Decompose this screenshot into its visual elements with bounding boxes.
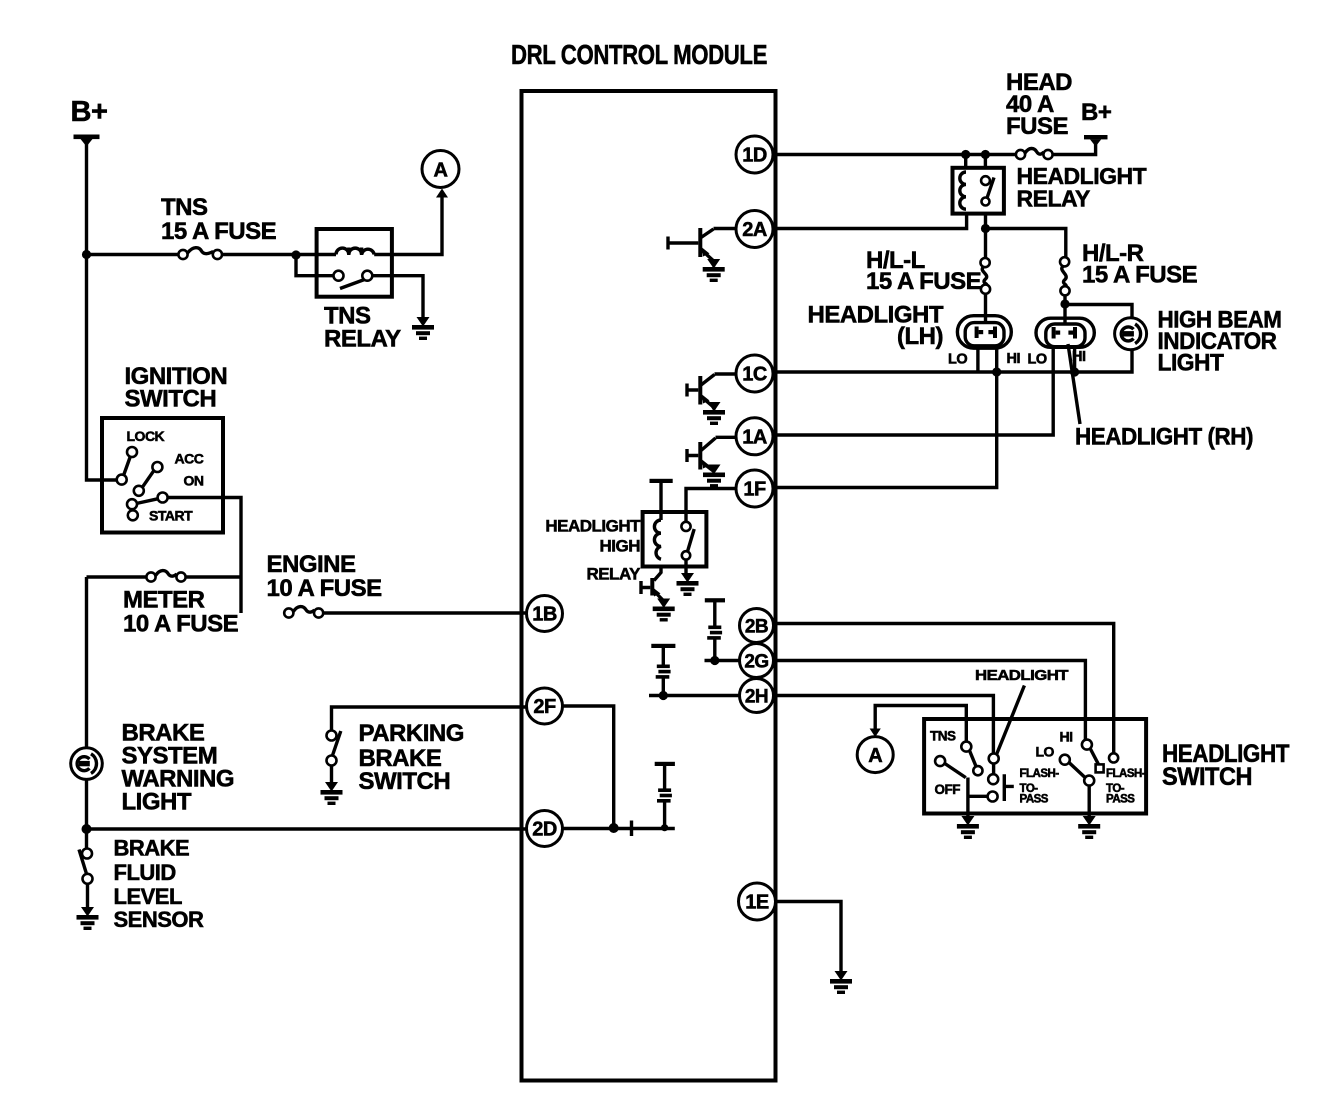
wire: 2A to relay K1 coil	[773, 214, 967, 229]
wire: ENGINE fuse to connector 1B	[323, 611, 527, 614]
wire: ignition switch output to fuses	[168, 498, 241, 614]
svg-text:LO: LO	[948, 352, 967, 368]
wire: branch down into TNS relay contact row	[296, 255, 334, 276]
junction node: relay coil tap on 1D wire	[961, 150, 970, 159]
terminal bar: zener D2 top	[651, 644, 675, 665]
ground: brake fluid level sensor	[77, 907, 99, 930]
svg-text:2G: 2G	[744, 652, 768, 673]
wire: H/L-R fuse to headlight RH and indicator	[1065, 295, 1132, 325]
ground: parking brake switch	[321, 782, 343, 805]
wire: 1C to headlight LH LO and high beam bus	[773, 350, 1132, 372]
label: BRAKE SYSTEM WARNING LIGHT	[122, 720, 235, 816]
relay K2 headlight high relay box	[643, 512, 707, 567]
svg-text:A: A	[868, 745, 882, 767]
svg-text:RELAY: RELAY	[586, 565, 641, 584]
ground: relay K2 contact	[677, 573, 699, 596]
terminal bar: zener D3 top	[655, 762, 675, 789]
wire: 1A to headlight RH LO	[773, 347, 1053, 435]
lamp: brake system warning light	[71, 748, 103, 780]
connector 2F	[527, 688, 563, 724]
relay K1 coil	[960, 172, 966, 209]
label: LO (LH)	[948, 352, 967, 368]
svg-text:2D: 2D	[532, 819, 557, 841]
connector 2G	[740, 644, 774, 678]
ground: headlight switch right	[1078, 816, 1100, 839]
wire: headlight RH HI pin	[1073, 347, 1076, 372]
svg-text:LO: LO	[1036, 744, 1055, 760]
label: HEADLIGHT (switch pointer)	[975, 667, 1068, 684]
junction node: TNS relay branch	[291, 250, 300, 259]
svg-text:10 A FUSE: 10 A FUSE	[267, 575, 383, 602]
wire: relay K1 contact top lead	[984, 155, 987, 169]
label: BRAKE FLUID LEVEL SENSOR	[114, 836, 205, 933]
wire: relay K2 coil to Q4 collector	[654, 567, 661, 581]
connector 1E	[739, 883, 776, 920]
connector A (top) with arrow	[422, 151, 459, 198]
wire: 2G internal	[705, 659, 741, 662]
svg-text:2H: 2H	[745, 687, 768, 708]
ignition switch contacts and blades	[117, 428, 204, 524]
headlight switch SW2 box	[924, 719, 1146, 814]
label: LO (switch position)	[1036, 744, 1055, 760]
svg-text:B+: B+	[1081, 99, 1112, 126]
transistor Q4 (relay driver)	[641, 578, 664, 605]
fuse: ENGINE 10 A FUSE	[284, 607, 323, 618]
connector 1B	[527, 596, 563, 632]
wire: 2D internal	[563, 827, 675, 830]
svg-text:15 A FUSE: 15 A FUSE	[161, 218, 277, 245]
wire: 1F internal to headlight high relay contact	[686, 489, 736, 523]
connector 1C	[736, 355, 773, 392]
svg-text:RELAY: RELAY	[324, 326, 401, 353]
label: H/L-R 15 A FUSE	[1082, 240, 1198, 289]
ground: Q4 emitter	[653, 599, 675, 622]
svg-text:TNS: TNS	[161, 194, 208, 221]
svg-text:15 A FUSE: 15 A FUSE	[866, 268, 982, 295]
lamp: headlight RH	[1036, 318, 1094, 347]
wire: 2D line to module	[87, 827, 528, 830]
ignition switch SW1 box	[102, 418, 223, 533]
label: HEADLIGHT HIGH RELAY	[545, 517, 641, 584]
fuse: TNS 15 A FUSE	[178, 248, 222, 259]
transistor Q1 (2A output)	[668, 228, 736, 267]
wire: H/L-L fuse to headlight LH	[984, 294, 987, 324]
wire: relay K1 contact down to H/L-L fuse	[984, 214, 987, 259]
junction node: 2D branch	[82, 824, 92, 834]
wire: branch to H/L-R fuse	[986, 229, 1066, 258]
svg-text:ON: ON	[184, 473, 204, 489]
transistor Q3 (1A output)	[687, 437, 736, 471]
svg-text:LOCK: LOCK	[127, 428, 165, 444]
label: IGNITION SWITCH	[125, 363, 228, 413]
wire: relay K2 contact to ground	[684, 560, 687, 578]
svg-text:1E: 1E	[745, 892, 769, 914]
label: HI (RH)	[1072, 349, 1086, 365]
svg-text:1C: 1C	[742, 364, 767, 386]
leader line: HEADLIGHT switch label	[997, 686, 1025, 755]
wire: TNS relay coil output to connector A	[374, 197, 442, 255]
label: LO (RH)	[1028, 352, 1047, 368]
svg-text:HEADLIGHT: HEADLIGHT	[975, 667, 1068, 684]
connector 1F	[736, 470, 773, 507]
svg-text:B+: B+	[71, 96, 108, 128]
switch: headlight switch left bank	[935, 742, 1014, 821]
svg-text:2A: 2A	[742, 219, 767, 241]
svg-text:START: START	[149, 508, 193, 524]
label: HEADLIGHT (RH)	[1075, 424, 1253, 451]
wire: 1E to ground	[775, 902, 841, 972]
svg-text:ENGINE: ENGINE	[267, 551, 357, 578]
svg-text:LEVEL: LEVEL	[114, 884, 182, 909]
DRL control module box U1	[522, 91, 776, 1081]
junction node: RH HI bus	[1070, 367, 1079, 376]
label: HEAD 40 A FUSE	[1006, 69, 1072, 140]
connector 2H	[740, 679, 774, 713]
wire: TNS fuse to TNS relay	[222, 253, 336, 256]
svg-text:OFF: OFF	[935, 782, 961, 797]
relay K1 contact	[981, 176, 994, 205]
svg-text:FLUID: FLUID	[114, 860, 176, 885]
switch: headlight switch right bank	[1060, 740, 1118, 821]
switch: parking brake	[327, 731, 341, 783]
label: TNS 15 A FUSE	[161, 194, 277, 245]
switch: brake fluid level sensor	[79, 849, 93, 908]
ground: Q2 emitter	[703, 402, 725, 425]
connector 2B	[740, 609, 774, 643]
relay K2 coil	[654, 520, 661, 559]
svg-text:1A: 1A	[742, 426, 767, 448]
svg-text:15 A FUSE: 15 A FUSE	[1082, 262, 1198, 289]
wire: TNS contact to connector A (bottom)	[875, 706, 966, 742]
wire: B+ to TNS fuse	[87, 253, 179, 256]
svg-text:FLASH-: FLASH-	[1020, 768, 1060, 780]
tick: connector mark on 2D internal wire	[630, 821, 633, 837]
connector 1D	[736, 136, 773, 173]
B+ terminal (top right)	[1081, 99, 1112, 147]
TNS relay box	[317, 229, 392, 297]
svg-text:METER: METER	[123, 587, 205, 614]
wire: relay K1 coil top lead	[964, 155, 967, 169]
svg-text:ACC: ACC	[175, 451, 204, 467]
svg-text:TNS: TNS	[930, 729, 956, 744]
terminal bar: headlight high relay coil top	[650, 479, 673, 520]
svg-text:PARKING: PARKING	[359, 720, 464, 747]
junction node: TNS fuse tap	[82, 250, 91, 259]
label: HIGH BEAM INDICATOR LIGHT	[1158, 307, 1282, 377]
svg-text:SWITCH: SWITCH	[359, 768, 451, 795]
relay K2 contact	[681, 522, 694, 560]
svg-text:LIGHT: LIGHT	[1158, 350, 1225, 377]
label: DRL CONTROL MODULE title	[511, 39, 767, 70]
ground: Q1 emitter	[703, 259, 725, 282]
svg-text:10 A FUSE: 10 A FUSE	[123, 611, 239, 638]
svg-text:FLASH-: FLASH-	[1106, 768, 1146, 780]
svg-text:DRL CONTROL MODULE: DRL CONTROL MODULE	[511, 39, 767, 70]
wire: TNS relay contact output to ground	[372, 276, 423, 317]
ground: 1E	[830, 971, 852, 994]
label: FLASH-TO-PASS (right)	[1106, 768, 1146, 806]
junction node: D1 on 2G wire	[710, 656, 719, 665]
svg-text:HIGH: HIGH	[600, 537, 641, 556]
ground: Q3 emitter	[703, 465, 725, 488]
connector 2D	[527, 811, 563, 847]
wire: 2G to headlight switch HI contact	[773, 661, 1085, 740]
svg-text:FUSE: FUSE	[1006, 113, 1069, 140]
label: HEADLIGHT SWITCH	[1162, 740, 1289, 791]
junction node: RH/indicator split	[1060, 299, 1069, 308]
zener diode D3	[657, 788, 672, 831]
relay K1 headlight relay box	[953, 168, 1004, 214]
svg-text:LO: LO	[1028, 352, 1047, 368]
wire: METER fuse feed	[87, 575, 242, 578]
TNS relay contact	[334, 271, 373, 289]
junction node: LH HI bus	[992, 367, 1001, 376]
svg-text:2F: 2F	[533, 696, 556, 718]
wire: left vertical to brake warning components	[85, 577, 88, 849]
label: TNS RELAY	[324, 303, 401, 353]
wire: 2F internal link down to 2D line	[563, 706, 614, 829]
junction node: D2 on 2H wire	[659, 691, 668, 700]
svg-text:PASS: PASS	[1106, 794, 1135, 806]
label: HEADLIGHT (LH)	[808, 302, 944, 351]
svg-text:A: A	[434, 160, 448, 182]
wire: 1D to HEAD fuse and B+	[773, 140, 1096, 155]
svg-text:(LH): (LH)	[897, 323, 943, 350]
fuse: H/L-L 15 A FUSE	[981, 258, 991, 294]
lamp: high beam indicator light	[1115, 318, 1147, 350]
svg-text:BRAKE: BRAKE	[114, 836, 190, 861]
svg-text:HI: HI	[1060, 729, 1073, 745]
zener diode D2	[656, 665, 671, 696]
terminal bar: zener D1 top	[705, 598, 725, 626]
svg-text:1F: 1F	[743, 479, 766, 501]
wire: 2H to headlight switch HEADLIGHT contact	[773, 696, 993, 754]
label: H/L-L 15 A FUSE	[866, 247, 982, 295]
wire: headlight LH HI down to 1F	[773, 348, 997, 487]
fuse: METER 10 A FUSE	[146, 571, 185, 582]
svg-text:RELAY: RELAY	[1017, 186, 1090, 212]
wire: 2F line to parking brake switch	[332, 707, 528, 731]
wire: 2B to headlight switch flash contact	[773, 624, 1114, 754]
junction node: headlight feed split	[981, 224, 990, 233]
fuse: HEAD 40 A FUSE	[1016, 148, 1053, 159]
connector A (bottom) with arrow	[857, 729, 893, 773]
label: ENGINE 10 A FUSE	[267, 551, 383, 602]
leader line: HEADLIGHT (RH) label	[1068, 344, 1080, 424]
TNS relay coil	[336, 248, 374, 256]
svg-text:LIGHT: LIGHT	[122, 789, 192, 816]
label: HEADLIGHT RELAY	[1017, 163, 1147, 212]
label: METER 10 A FUSE	[123, 587, 239, 638]
transistor Q2 (1C output)	[687, 374, 736, 410]
lamp: headlight LH	[957, 316, 1011, 349]
zener diode D1	[707, 626, 722, 661]
fuse: H/L-R 15 A FUSE	[1060, 257, 1070, 295]
label: TNS (switch position)	[930, 729, 956, 744]
label: HI (switch position)	[1060, 729, 1073, 745]
svg-text:SWITCH: SWITCH	[125, 386, 217, 413]
ground: TNS relay	[412, 317, 434, 340]
label: PARKING BRAKE SWITCH	[359, 720, 464, 795]
svg-text:SENSOR: SENSOR	[114, 907, 205, 932]
svg-text:HEADLIGHT (RH): HEADLIGHT (RH)	[1075, 424, 1253, 451]
svg-text:1D: 1D	[742, 145, 767, 167]
svg-text:HI: HI	[1007, 351, 1021, 367]
svg-text:SWITCH: SWITCH	[1162, 763, 1252, 791]
label: HI (LH)	[1007, 351, 1021, 367]
label: OFF (switch position)	[935, 782, 961, 797]
wire: headlight LH LO pin	[976, 348, 979, 372]
label: FLASH-TO-PASS (left)	[1020, 768, 1060, 806]
svg-text:2B: 2B	[745, 617, 768, 638]
wire: B+ main left vertical feed to ignition switch	[87, 139, 117, 480]
svg-text:1B: 1B	[532, 604, 557, 626]
connector 2A	[736, 211, 773, 248]
B+ terminal (top left)	[71, 96, 108, 147]
svg-text:HEADLIGHT: HEADLIGHT	[545, 517, 641, 536]
connector 1A	[736, 418, 773, 455]
svg-text:PASS: PASS	[1020, 794, 1049, 806]
ground: headlight switch left	[957, 816, 979, 839]
junction node: relay contact tap on 1D wire	[981, 150, 990, 159]
junction node: 2F/2D internal	[609, 823, 619, 833]
wire: 2H internal	[649, 694, 740, 697]
